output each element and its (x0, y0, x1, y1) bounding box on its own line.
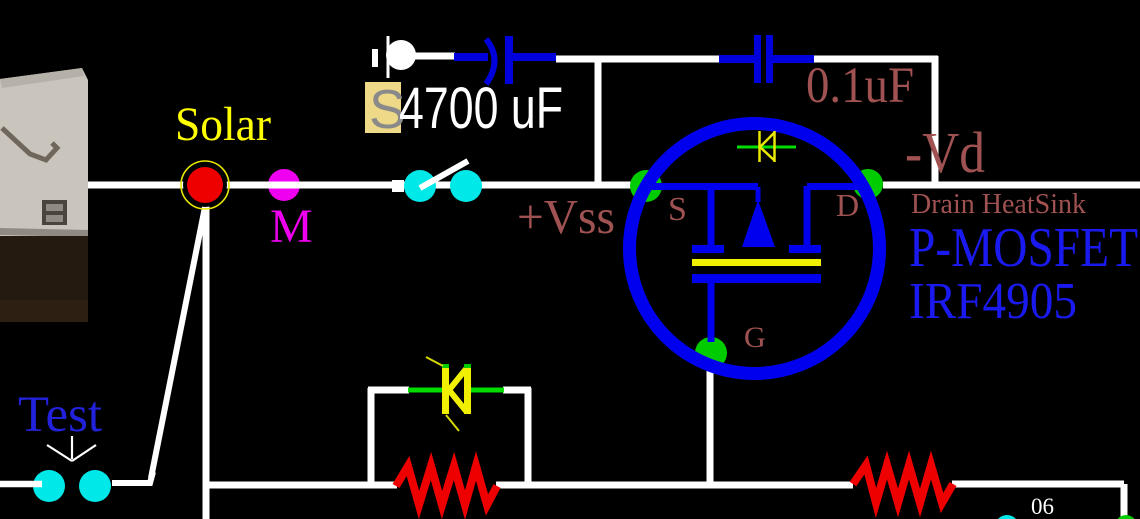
node Solar (black pad under red terminal) (183, 163, 227, 207)
capacitor C1 electrolytic positive terminal circle (386, 40, 416, 70)
node D terminal (green) (853, 169, 883, 199)
photo of solar panel meter (top-left corner) (0, 68, 88, 322)
wire: bend into test terminal row (112, 472, 153, 483)
resistor R2 (right, red zigzag) (853, 465, 953, 503)
svg-text:+Vss: +Vss (517, 189, 615, 244)
wire: zener loop top-left white segment (368, 387, 409, 394)
svg-text:IRF4905: IRF4905 (909, 273, 1077, 330)
transistor Q1 drain drop (804, 186, 811, 246)
wire: between blue cap and junction (556, 56, 600, 63)
zener diode D1 anode bar (464, 367, 471, 414)
svg-text:4700 uF: 4700 uF (399, 76, 563, 141)
transistor Q1 drain lead (807, 183, 866, 190)
capacitor C1 plate line (387, 36, 390, 78)
wire: bottom bus right section (952, 481, 1124, 488)
svg-text:0.1uF: 0.1uF (806, 58, 914, 114)
transistor Q1 substrate arrow (756, 187, 761, 202)
svg-text:Drain HeatSink: Drain HeatSink (911, 188, 1086, 220)
node at bottom edge (cyan, clipped) (995, 515, 1019, 519)
svg-text:06: 06 (1031, 494, 1054, 519)
zener diode D1 green lead left (408, 388, 443, 393)
svg-text:G: G (744, 321, 766, 354)
capacitor C2 blue lead left (719, 55, 754, 63)
zener diode D1 green cap right (464, 364, 471, 368)
wire: zener loop right vertical (525, 388, 532, 485)
switch S1 throw contact (450, 170, 482, 202)
wire: left stub to first test terminal (0, 481, 42, 488)
svg-text:P-MOSFET: P-MOSFET (909, 217, 1138, 279)
capacitor C2 plate left (754, 35, 761, 83)
yellow ring around solar node (181, 161, 229, 209)
test terminal 1 (cyan) (33, 470, 65, 502)
resistor R1 (left, red zigzag) (396, 466, 497, 505)
capacitor C1 plus-lead bar (372, 49, 378, 67)
zener diode D1 top wing (426, 357, 443, 366)
svg-text:S: S (668, 191, 687, 228)
transistor Q1 source drop (708, 186, 715, 246)
node Solar (red terminal) (187, 167, 223, 203)
wire: vertical junction drop at x=598 (595, 56, 602, 185)
test terminal 2 (cyan) (79, 470, 111, 502)
node G terminal (green) (695, 337, 727, 369)
capacitor C1 flat plate (505, 36, 513, 84)
capacitor C1 blue lead right (513, 53, 556, 61)
transistor Q1 drain contact bar (789, 245, 821, 253)
switch S1 lever (420, 161, 468, 188)
wire: zener loop left vertical (368, 388, 375, 485)
label S on yellow tag (365, 82, 401, 133)
capacitor C2 blue lead right (773, 55, 814, 63)
wire: right vertical of 0.1uF loop down to bus (932, 56, 939, 185)
capacitor C1 blue lead left (454, 53, 488, 61)
zener diode D1 green lead right (469, 388, 504, 393)
wire: gate lead down from MOSFET (707, 366, 714, 485)
svg-text:D: D (836, 187, 859, 223)
wire over magenta dot (268, 182, 300, 189)
wire: from 0.1uF capacitor to right vertical (814, 56, 938, 63)
node S terminal (green) (630, 170, 662, 202)
svg-text:M: M (270, 200, 313, 253)
transistor Q1 source contact bar (692, 245, 724, 253)
svg-text:Test: Test (18, 387, 102, 443)
wire: zener loop top-right white segment (503, 387, 531, 394)
zener diode D1 cathode bar (442, 367, 449, 414)
transistor Q1 gate lead (708, 283, 715, 342)
wire: 4700uF capacitor top branch (414, 53, 455, 60)
wire: main horizontal bus at y=185 (right of MOSFET) (883, 182, 1140, 189)
capacitor C2 plate right (766, 35, 773, 83)
transistor Q1 source lead (652, 183, 758, 190)
switch S1 contact square (392, 180, 404, 192)
wire: bottom bus left section (204, 482, 397, 489)
zener diode D1 triangle (449, 369, 466, 411)
wire: vertical from solar node down to bottom edge (203, 200, 210, 519)
svg-text:Solar: Solar (175, 98, 271, 151)
wire: top branch toward 0.1uF capacitor (598, 56, 719, 63)
body diode symbol (yellow with green wire) at top of Q1 (737, 131, 796, 162)
transistor Q1 body circle (630, 124, 880, 374)
wire: main horizontal bus at y=185 (left of MOSFET) (88, 182, 637, 189)
wire: bottom bus middle section (496, 482, 853, 489)
svg-text:-Vd: -Vd (905, 120, 985, 185)
transistor Q1 gate plate (692, 274, 821, 283)
capacitor C1 curved plate (486, 39, 495, 84)
zener diode D1 bottom wing (446, 415, 459, 431)
arrow pointing at test terminals (47, 436, 96, 461)
wire: right edge vertical drop (1121, 484, 1128, 519)
zener diode D1 green cap left (442, 364, 449, 368)
node M (magenta meter dot) (268, 169, 300, 201)
wire: diagonal from solar node to test terminals (151, 202, 206, 478)
node at bottom right (green, clipped) (1115, 515, 1137, 519)
transistor Q1 channel (yellow) (692, 259, 821, 266)
switch S1 pole contact (404, 170, 436, 202)
